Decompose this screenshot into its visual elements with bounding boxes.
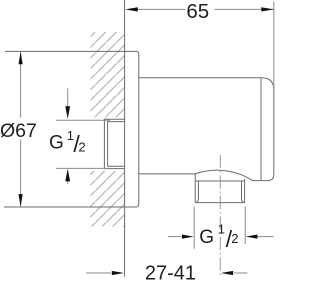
svg-text:27-41: 27-41 xyxy=(145,262,196,284)
svg-text:2: 2 xyxy=(231,231,238,246)
svg-text:G: G xyxy=(49,133,64,154)
svg-text:Ø67: Ø67 xyxy=(0,120,37,142)
svg-text:2: 2 xyxy=(78,139,85,154)
svg-text:1: 1 xyxy=(218,222,225,237)
svg-text:65: 65 xyxy=(186,0,209,23)
svg-text:G: G xyxy=(199,227,214,248)
